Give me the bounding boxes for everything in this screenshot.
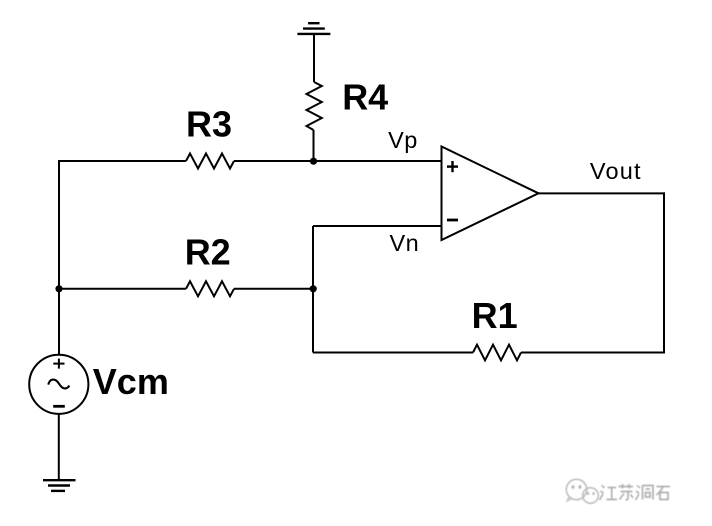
svg-text:R4: R4 [342,76,388,117]
svg-text:Vcm: Vcm [93,361,169,402]
svg-text:R1: R1 [472,295,518,336]
svg-text:Vn: Vn [390,230,420,256]
svg-text:R2: R2 [185,232,231,273]
svg-text:R3: R3 [186,104,232,145]
svg-text:Vp: Vp [388,127,418,153]
svg-text:Vout: Vout [590,158,642,184]
